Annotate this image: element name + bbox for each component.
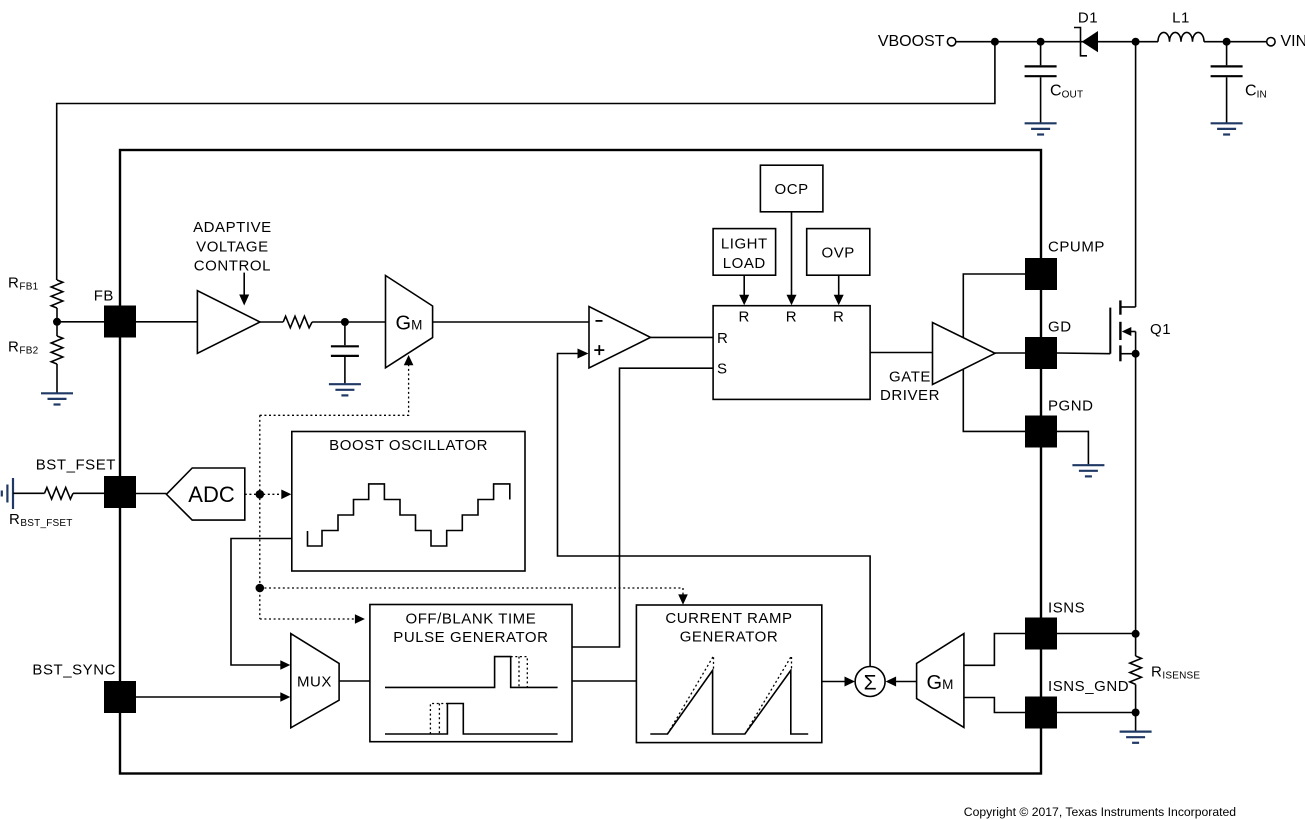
ground (compensation cap) [329,384,361,395]
wire buffer to resistor [260,321,283,323]
block CURRENT RAMP GENERATOR [636,605,821,743]
svg-text:CURRENT RAMP: CURRENT RAMP [665,610,792,627]
svg-text:GENERATOR: GENERATOR [680,628,779,645]
block BOOST OSCILLATOR [292,432,525,572]
wire FB pin to buffer [136,321,197,323]
svg-text:RFB1: RFB1 [8,275,39,293]
wire OVP to latch with arrow [834,275,844,305]
diode D1 (Schottky) [1074,28,1098,56]
node junction at Q1 drain [1132,38,1140,46]
svg-text:R: R [786,309,797,326]
wire MUX to off/blank generator [339,680,370,682]
wire VBOOST branch down-left to RFB1 [57,42,995,280]
waveform sawtooth (current ramp) [650,656,808,734]
svg-text:COUT: COUT [1050,83,1083,101]
ground (PGND) [1072,465,1104,476]
wire BST_FSET pin to ADC [136,493,166,495]
wire GM2 to summer with arrow [886,677,917,687]
svg-text:BST_FSET: BST_FSET [36,456,116,473]
svg-text:CIN: CIN [1245,83,1267,101]
pin GD [1025,337,1057,369]
gate driver triangle [933,323,996,385]
wire comparator output to latch R [651,336,714,338]
capacitor (compensation) [331,322,359,383]
ground (COUT) [1025,123,1057,134]
amplifier GM2 (current sense) [917,634,964,728]
ground (ISNS_GND) [1120,732,1152,743]
wire Q1 source down to ISNS node [1135,332,1137,657]
wire GM1 to comparator [433,321,589,323]
SR latch U2 [713,306,870,400]
resistor RISENSE [1130,656,1142,684]
svg-text:ISNS: ISNS [1048,600,1085,617]
block OFF/BLANK TIME PULSE GENERATOR [370,605,572,742]
svg-text:VIN: VIN [1281,33,1305,50]
svg-text:Σ: Σ [864,672,877,695]
transistor Q1 drain tap [1120,306,1135,308]
transistor Q1 source tap [1120,353,1135,355]
svg-text:RISENSE: RISENSE [1151,664,1200,682]
capacitor COUT [1025,42,1057,123]
svg-text:GATE: GATE [889,368,931,385]
wire BST_SYNC to MUX [136,692,290,702]
resistor (compensation) [283,316,312,328]
svg-text:ADC: ADC [188,482,235,507]
ground (RBST_FSET, rotated left) [2,478,13,509]
svg-text:R: R [739,309,750,326]
svg-text:R: R [717,330,728,347]
wire resistor to GM1 [312,321,385,323]
svg-text:BOOST OSCILLATOR: BOOST OSCILLATOR [329,437,488,454]
node junction Q1 source [1132,350,1140,358]
comparator U1 [589,307,651,369]
svg-text:OCP: OCP [775,181,809,198]
node junction compensation [341,318,349,326]
dotted wire vertical trunk [259,415,261,619]
arrow label to buffer [239,273,249,306]
pin FB [104,306,136,338]
wire ISNS pin to sense node [1057,633,1136,635]
wire RISENSE to ISNS_GND node [1135,684,1137,730]
pin CPUMP [1025,258,1057,290]
svg-text:LIGHT: LIGHT [721,235,768,252]
wire ground to RBST_FSET [13,492,45,494]
svg-text:ADAPTIVE: ADAPTIVE [193,219,272,236]
svg-text:PGND: PGND [1048,398,1094,415]
block OVP [807,229,870,276]
wire divider to FB pin [57,321,104,323]
block OCP [760,165,823,212]
svg-text:L1: L1 [1172,10,1190,27]
svg-text:S: S [717,361,728,378]
waveform pulse bottom (off/blank) [385,704,558,735]
svg-text:MUX: MUX [297,674,332,691]
label CURRENT RAMP GENERATOR [665,610,792,646]
ground (CIN) [1211,123,1243,134]
ground (feedback divider) [41,393,73,404]
label OFF/BLANK TIME PULSE GENERATOR [393,610,548,646]
wire CPUMP/PGND supply loop [963,274,1025,431]
transistor Q1 gate bar [1109,308,1111,354]
svg-text:GD: GD [1048,319,1072,336]
svg-text:RBST_FSET: RBST_FSET [9,511,73,529]
svg-text:VBOOST: VBOOST [878,33,945,50]
node junction at VBOOST branch [991,38,999,46]
node junction at COUT [1037,38,1045,46]
pin PGND [1025,416,1057,448]
wire GD pin to Q1 gate [1057,352,1110,355]
svg-text:Copyright © 2017, Texas Instru: Copyright © 2017, Texas Instruments Inco… [964,805,1236,819]
svg-text:RFB2: RFB2 [8,339,39,357]
wire RFB2 to ground [56,364,58,393]
dotted wire to GM1 adjust [260,355,414,415]
wire off/blank to current ramp [572,680,636,682]
wire gate driver to GD pin [995,352,1025,354]
label GATE DRIVER [880,368,940,404]
block ADC [166,468,244,520]
node junction dotted trunk [255,584,264,593]
node junction at CIN [1223,38,1231,46]
svg-text:Q1: Q1 [1150,321,1171,338]
svg-text:BST_SYNC: BST_SYNC [32,662,116,679]
inductor L1 [1158,32,1204,41]
wire LIGHT LOAD to latch with arrow [739,275,749,305]
svg-text:D1: D1 [1078,10,1098,27]
arrow into boost oscillator [281,490,291,500]
amplifier GM (error amp) [386,276,433,368]
svg-text:OVP: OVP [822,245,855,262]
node junction FB divider [53,318,61,326]
dotted wire ADC to boost oscillator [245,493,283,495]
svg-text:CPUMP: CPUMP [1048,239,1105,256]
wire ISNS_GND pin to node [1057,712,1136,714]
wire GM2 lower input from ISNS_GND [964,698,1025,713]
block LIGHT LOAD [713,229,776,276]
arrow into plus input [578,349,589,359]
svg-text:R: R [833,309,844,326]
resistor RBST_FSET [45,488,74,500]
wire GM2 upper input from ISNS [964,634,1025,666]
svg-text:VOLTAGE: VOLTAGE [196,238,268,255]
wire oscillator output to MUX [231,539,292,670]
label ADAPTIVE VOLTAGE CONTROL [193,219,272,275]
wire PGND to ground [1057,431,1088,464]
wire Q1 drain vertical [1135,42,1137,307]
svg-text:OFF/BLANK TIME: OFF/BLANK TIME [406,610,537,627]
node junction ISNS [1132,630,1140,638]
label LIGHT LOAD [721,235,768,272]
pin BST_SYNC [104,681,136,713]
wire S latch path from off/blank [572,368,713,647]
capacitor CIN [1211,42,1243,123]
IC outer box [120,150,1041,774]
wire RBST_FSET to BST_FSET pin [73,492,104,494]
svg-text:ISNS_GND: ISNS_GND [1048,678,1129,695]
wire top rail VBOOST to L1 [956,41,1158,43]
pin ISNS [1025,618,1057,650]
waveform pulse top (off/blank) [385,657,558,688]
op-amp buffer (adaptive voltage control) [197,291,260,354]
resistor RFB2 [51,336,63,364]
transistor Q1 body arrow [1122,327,1136,336]
comparator minus sign [596,320,603,322]
wire L1 to VIN terminal [1204,41,1267,43]
wire sum to comparator plus [558,354,871,667]
pin ISNS_GND [1025,697,1057,729]
wire latch output to gate driver [870,352,932,354]
wire RFB1 to RFB2 [56,308,58,336]
wire ramp to summer with arrow [822,677,855,687]
dotted wire to off/blank generator [260,614,365,624]
svg-text:LOAD: LOAD [723,255,766,272]
terminal VIN [1267,38,1275,46]
node junction ADC dotted [255,490,264,499]
svg-text:FB: FB [94,288,114,305]
dotted wire to current ramp generator [260,588,688,605]
wire OCP to latch with arrow [787,212,797,305]
summer sigma [855,667,885,697]
svg-text:DRIVER: DRIVER [880,387,940,404]
comparator plus sign [594,345,604,355]
transistor Q1 channel segments [1119,300,1121,361]
resistor RFB1 [51,280,63,308]
waveform staircase (boost oscillator) [308,484,510,546]
svg-text:PULSE GENERATOR: PULSE GENERATOR [393,629,548,646]
node junction ISNS_GND [1132,709,1140,717]
pin BST_FSET [104,476,136,508]
terminal VBOOST [947,38,955,46]
multiplexer MUX [291,634,339,728]
svg-text:CONTROL: CONTROL [194,258,271,275]
